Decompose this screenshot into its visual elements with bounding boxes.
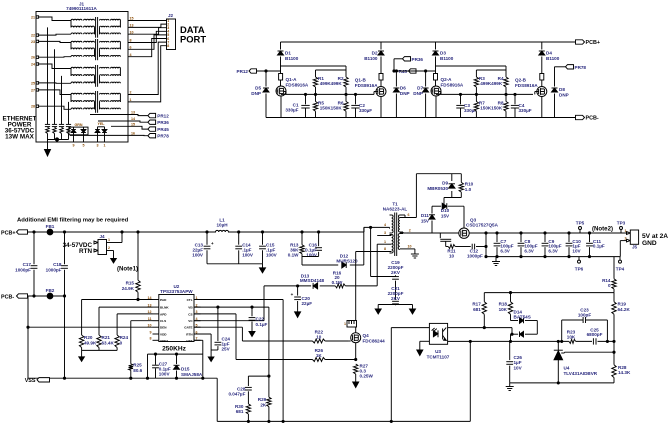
U2 left pin numbers [148,296,152,341]
diode D15 TVS [174,354,180,378]
svg-text:22µF: 22µF [302,301,313,306]
J1 left pin numbers [31,15,35,108]
svg-text:TP3: TP3 [617,221,626,226]
label PR45 [396,69,408,74]
wire package to Q4 [355,327,357,333]
svg-text:TP5: TP5 [576,221,585,226]
svg-text:3: 3 [384,231,386,235]
wire VC row [194,320,264,322]
svg-text:6.3V: 6.3V [524,249,534,254]
wire aux winding net [264,244,377,287]
svg-text:VSS: VSS [25,378,36,384]
wire VSS rail [28,377,217,379]
resistor R7 [474,94,478,117]
svg-text:D2: D2 [372,51,378,56]
label C28 [228,386,245,396]
capacitor C4 [511,94,519,117]
label Note1 [117,266,138,273]
J1 termination common node wire [48,138,69,141]
label C18 [46,262,62,273]
wire bottom bus PCB- [266,117,576,119]
T1 pin stubs right [400,218,417,249]
svg-text:B1100: B1100 [364,56,378,61]
svg-text:24.9K: 24.9K [122,286,135,291]
svg-text:10K: 10K [567,334,576,339]
svg-text:21: 21 [31,15,35,19]
svg-text:27: 27 [31,88,35,92]
wire R3R4 top rail [476,69,506,71]
svg-text:D7: D7 [417,86,423,91]
label C1 [285,103,299,113]
svg-text:DNP: DNP [251,91,261,96]
wire input - rail [28,295,66,297]
capacitor C24 [211,307,221,350]
label J2 [168,13,174,18]
node PCB+ tag [576,40,601,46]
svg-text:Q4: Q4 [363,333,370,338]
svg-text:J4: J4 [99,234,105,239]
resistor R17 [482,293,486,328]
wire CLS row [131,320,153,322]
svg-text:MURS120: MURS120 [336,258,358,263]
svg-text:14: 14 [131,117,135,121]
label C25 [587,327,603,337]
svg-text:R18: R18 [499,302,508,307]
node PR36 tag [403,57,424,62]
label C11 [593,239,605,249]
label D5 DNP [251,86,261,97]
svg-text:YEL: YEL [98,122,106,126]
T1 pin numbers right [408,213,412,248]
label C24 [222,337,231,352]
J1 center-tap RC terminations [45,123,71,140]
wire PCB- to VSS rail [27,296,29,378]
svg-text:NA6223-AL: NA6223-AL [383,207,408,212]
wire BLNK row [99,306,153,308]
svg-text:J5: J5 [632,245,638,250]
svg-text:D3: D3 [440,51,446,56]
resistor R6 [344,94,348,117]
resistor R1 [313,70,317,94]
label C7 [500,239,513,254]
svg-text:2KV: 2KV [391,296,401,301]
J5 pin numbers [625,229,627,241]
svg-text:VC: VC [188,319,193,323]
svg-text:Q2-A: Q2-A [441,77,453,82]
label R10 [465,182,474,193]
label PR12 [237,69,249,74]
wires J1 to J2 data port [128,21,167,102]
label J1 [79,2,85,7]
svg-text:R20: R20 [84,335,93,340]
svg-text:D4: D4 [546,51,552,56]
svg-text:2: 2 [409,229,411,233]
label 74990111611A [66,6,97,11]
transformer windings group 2 inside J1 [71,39,120,60]
wire PR12 to gate [257,70,281,72]
capacitor C17 [31,232,38,296]
svg-text:(Note2): (Note2) [592,226,613,233]
svg-text:1: 1 [344,322,346,326]
svg-text:150K150K: 150K150K [480,105,503,110]
resistor R29 [267,376,271,421]
svg-text:16: 16 [131,132,135,136]
label C9 [548,239,561,254]
svg-text:BLNK: BLNK [160,306,169,310]
wire U4 ref [565,351,616,353]
resistor R5 [313,94,317,117]
svg-text:R19: R19 [618,302,627,307]
svg-text:R10: R10 [465,182,474,187]
node PR45 tag (left) [148,127,169,132]
label D12 [336,254,358,264]
label C21 [388,286,404,301]
svg-text:R29: R29 [258,397,267,402]
label R17 [472,302,481,312]
svg-text:FDS8916A: FDS8916A [355,83,378,88]
wire VB row [194,306,269,308]
wire slope comp top [248,375,270,377]
label R26 [315,348,324,358]
svg-text:PR78: PR78 [157,134,169,139]
wire C27 D15 loop top [148,353,203,378]
label D15 [181,366,203,377]
svg-text:CTL: CTL [187,298,193,302]
wire J4 pin1 to rail [107,232,123,243]
svg-text:5V at 2A: 5V at 2A [642,233,668,240]
transformer T1 primary winding [390,215,394,253]
ground output rail [492,257,500,266]
svg-text:15: 15 [130,17,134,21]
U2 left pin names [160,298,169,343]
svg-text:C18: C18 [53,262,62,267]
wire D1 to R1R2 rail [281,66,347,74]
label DATA PORT [180,24,206,45]
ground arrow below C22 [249,330,255,337]
svg-text:5: 5 [83,144,85,148]
svg-text:D8: D8 [559,87,565,92]
wire gate drive [242,340,312,342]
svg-text:FDS8916A: FDS8916A [286,83,309,88]
test point TP5 [576,221,585,234]
label PCB+ input [1,230,16,236]
wire C19 column top [370,226,372,276]
svg-text:1: 1 [625,229,627,233]
wire feedback bottom [510,382,614,384]
svg-text:8: 8 [130,39,132,43]
label C2 [359,103,372,113]
svg-text:B1100: B1100 [546,56,560,61]
svg-text:CLS: CLS [160,319,166,323]
resistor R2 [344,70,348,94]
wire opto anode [391,328,429,422]
svg-text:23: 23 [31,40,35,44]
svg-text:4: 4 [130,53,132,57]
resistor R28 [612,341,616,383]
label C26 [514,355,523,371]
wire PR36 down [393,59,403,72]
label Q1-A [286,77,309,88]
diode D5 (DNP) [263,71,269,118]
label Q2-A [441,77,464,88]
capacitor C20 [291,286,301,311]
wire rail after L1 [228,231,364,233]
svg-text:Q1-A: Q1-A [286,77,298,82]
diode D9 [449,184,455,188]
label D7 DNP [413,86,423,97]
wire APD row [117,313,152,315]
svg-text:PAD: PAD [160,298,167,302]
node PR12 tag (left) [148,113,169,118]
wire rail to T1 pin4 [364,227,390,232]
svg-text:FDC86244: FDC86244 [363,338,386,343]
svg-text:Additional EMI filtering may b: Additional EMI filtering may be required [17,218,129,224]
svg-text:D9: D9 [442,181,448,186]
label C14 [242,243,254,258]
svg-text:9: 9 [150,330,152,334]
svg-text:10: 10 [316,334,322,339]
diode D2 [378,42,384,74]
label EMI note [17,218,129,224]
svg-text:PCB-: PCB- [586,116,599,122]
svg-text:PR45: PR45 [157,127,169,132]
node VSS tag [25,378,50,384]
ground arrow input caps [260,264,266,273]
label R20 [84,335,97,346]
svg-text:6: 6 [408,213,410,217]
wire D12 to rail column [363,227,365,265]
svg-text:499K499K: 499K499K [480,81,503,86]
label R16 [332,270,343,284]
svg-text:Q2-B: Q2-B [515,78,527,83]
diode D4 [539,42,545,74]
svg-text:D5: D5 [255,86,261,91]
label C16 [305,243,318,258]
label U3 [427,349,450,360]
capacitor C8 [518,232,525,258]
transformer T1 label [383,202,408,212]
svg-text:APD: APD [160,312,167,316]
J1 pin number for PR36 [131,117,135,121]
svg-text:13: 13 [131,111,135,115]
svg-text:0.1µF: 0.1µF [256,322,268,327]
label R30 [235,404,244,414]
svg-text:15: 15 [131,123,135,127]
svg-text:1: 1 [104,144,106,148]
wire GATE row [194,327,242,341]
label 5V at 2A GND [642,233,668,247]
svg-text:FDS8916A: FDS8916A [515,83,538,88]
capacitor C28 [245,376,252,404]
label U2 [160,284,193,294]
connector J2 outline [167,19,176,50]
node PR78 tag (left) [148,134,169,139]
svg-text:DNP: DNP [559,93,569,98]
label R3 R4 [479,76,504,86]
svg-text:R25: R25 [133,362,142,367]
svg-text:2: 2 [108,246,110,250]
label C22 [256,316,268,327]
capacitor C14 [235,232,242,264]
svg-text:TP4: TP4 [616,267,625,272]
J1 pin number for PR78 [131,132,135,136]
svg-text:MBR0530: MBR0530 [427,186,448,191]
svg-text:22: 22 [31,34,35,38]
svg-text:6800pF: 6800pF [587,332,603,337]
J1 center-tap vertical wires [48,27,69,122]
label R21 [102,335,115,346]
ground arrow below R20 [79,350,85,361]
svg-text:0: 0 [608,283,611,288]
label R7 R8 [479,101,504,111]
J4 pin numbers [108,238,110,250]
LED pair inside J1 [95,122,107,142]
label D9 [427,181,448,192]
capacitor C7 [494,232,501,258]
capacitor C16 [315,232,322,257]
svg-text:1.0: 1.0 [465,187,472,192]
wire snubber RC bottom [302,257,338,266]
node PR45 tag [409,69,417,73]
test point TP4 [616,257,625,272]
svg-text:0: 0 [120,340,123,345]
resistor R10 [459,182,463,192]
label U4 [564,366,598,377]
resistor R14 [612,257,616,293]
svg-text:C22: C22 [256,316,265,321]
resistor R3 [474,70,478,94]
test point TP6 [575,257,584,272]
svg-text:C26: C26 [514,355,523,360]
wire J1 to PR12 tag [90,115,148,116]
label C3 [464,103,477,113]
connector J1 magnetics module outline [36,12,128,143]
svg-text:FB1: FB1 [46,224,55,229]
svg-text:PCB+: PCB+ [1,230,16,236]
capacitor C10 [566,232,573,258]
resistor R4 [504,70,508,94]
svg-text:10µH: 10µH [216,223,228,228]
wire J5 pin2 to gnd rail [620,241,626,257]
svg-text:R14: R14 [602,278,611,283]
svg-text:R28: R28 [618,365,627,370]
svg-text:6: 6 [130,46,132,50]
svg-text:VB: VB [188,306,193,310]
label D14 [514,309,531,319]
capacitor C22 [249,307,256,330]
wire C19 to C21 [395,281,397,300]
J1 bottom pin numbers [73,144,106,148]
capacitor C9 [542,232,549,258]
ground arrow below R27 [353,374,359,388]
svg-text:PORT: PORT [180,34,206,45]
resistor R13 [300,232,304,257]
label C17 [15,262,31,273]
J1 right pin numbers [130,17,134,102]
wire J1 to PR78 tag [70,134,148,136]
svg-text:RTN: RTN [186,333,193,337]
U2 left pin stubs [153,300,159,341]
svg-text:10: 10 [408,245,412,249]
label R5 R6 [318,101,344,111]
capacitor C25 [593,338,596,344]
svg-text:681: 681 [236,409,244,414]
svg-text:74990111611A: 74990111611A [66,6,97,11]
svg-text:1000pF: 1000pF [15,268,31,273]
svg-text:TLV431AIDBVR: TLV431AIDBVR [564,371,598,376]
svg-text:6.3V: 6.3V [548,249,558,254]
wire Q3 gate RC [440,233,487,257]
svg-text:RTN: RTN [79,248,92,255]
svg-text:2: 2 [130,91,132,95]
resistor R22 [313,339,326,343]
svg-text:1000pF: 1000pF [467,253,483,258]
wire J1 to PR45 tag [111,126,148,129]
label C12 [467,248,483,258]
wire opto collector [448,327,512,329]
svg-text:R24: R24 [120,335,129,340]
resistor R23 [569,339,576,343]
svg-text:1: 1 [108,238,110,242]
diode D13 [313,283,318,289]
svg-text:U3: U3 [435,349,441,354]
capacitor C1 [301,94,309,117]
svg-text:24: 24 [31,62,35,66]
wire opto cathode arrow [417,341,430,355]
svg-text:2: 2 [625,236,627,240]
shunt regulator U4 TLV431 [554,341,565,383]
diode D14 dual BAT54S [509,318,537,343]
capacitor C18 [61,232,68,296]
connector J4 [94,234,107,255]
wire R26 to source [325,358,357,360]
J1 pin number for PR12 [131,111,135,115]
label R14 [602,278,611,288]
resistor R27 [354,364,358,374]
transistor Q2-B [535,74,547,118]
wire C21 bottom [375,305,415,315]
wire J1 to PR36 tag [98,121,148,122]
wire CS sense [236,359,313,361]
label C20 [302,296,313,306]
transformer T1 secondary winding [398,215,405,249]
TVS diode pair inside J1 [69,123,88,142]
diode D7 (DNP) [423,71,429,118]
label C13 [192,243,204,258]
node PR36 tag (left) [148,120,169,125]
svg-text:1K: 1K [316,353,323,358]
label R18 [499,302,508,312]
resistor R18 [508,293,512,321]
label 34-57VDC RTN [63,242,93,255]
IC U3 optocoupler [429,323,447,344]
svg-text:R17: R17 [472,302,481,307]
svg-text:MMSD4148: MMSD4148 [300,278,325,283]
svg-text:14.3K: 14.3K [618,370,631,375]
capacitor C2 [351,94,359,117]
wire PR78 down [555,67,566,87]
label R13 [288,243,299,258]
U2 right pin names [184,298,193,343]
label ETHERNET POWER block [3,115,37,140]
svg-text:SMAJ58A: SMAJ58A [181,372,203,377]
resistor R16 [335,284,345,288]
resistor R30 [246,404,250,422]
capacitor C19 [392,277,399,280]
wire snubber to D10 net [443,198,445,207]
svg-text:CSD17527Q5A: CSD17527Q5A [466,223,499,228]
svg-text:C28: C28 [237,386,246,391]
